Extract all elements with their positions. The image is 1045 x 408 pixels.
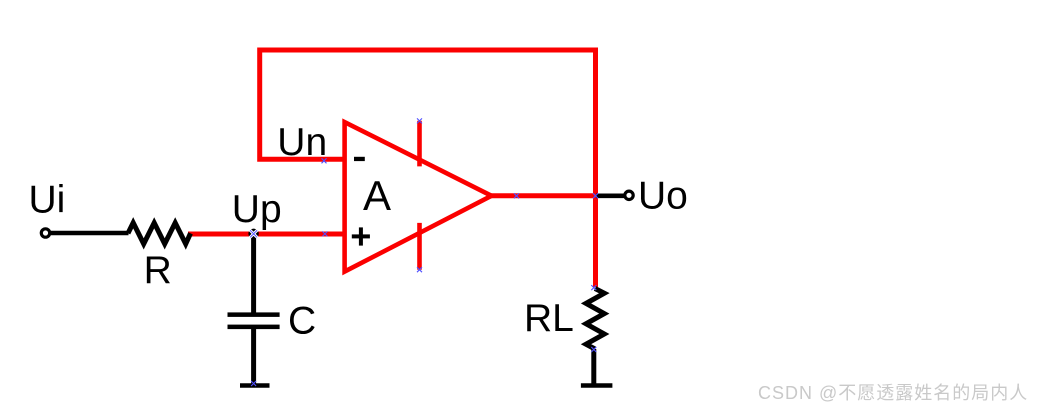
node Up junction dot (248, 229, 258, 239)
ground bar below RL (581, 383, 613, 388)
selection handle marker RL top (591, 285, 596, 290)
op-amp positive supply stub (417, 121, 422, 167)
svg-text:C: C (288, 299, 316, 342)
selection handle marker top supply stub (417, 118, 422, 123)
selection handle marker capacitor ground (251, 381, 256, 386)
resistor RL zigzag (586, 289, 604, 350)
svg-text:R: R (144, 249, 172, 292)
ground bar below capacitor (240, 383, 270, 388)
op-amp negative supply stub (417, 223, 422, 270)
op-amp inverting input minus sign (354, 157, 365, 161)
capacitor C top lead wire (251, 234, 256, 313)
capacitor C bottom lead wire (251, 328, 256, 385)
svg-text:Ui: Ui (29, 179, 66, 222)
wire input terminal to resistor R (51, 231, 129, 236)
svg-text:Un: Un (277, 121, 327, 164)
watermark (758, 379, 1028, 405)
selection handle marker on node Up (250, 231, 256, 237)
svg-text:Uo: Uo (638, 175, 688, 218)
resistor RL bottom lead wire (591, 349, 596, 384)
svg-text:RL: RL (524, 297, 574, 340)
op-amp non-inverting input plus sign (352, 227, 370, 245)
selection handle marker on output wire (514, 193, 519, 198)
input terminal Ui circle (41, 229, 49, 237)
wire from resistor R to non-inverting input (188, 232, 346, 237)
selection handle marker bottom supply stub (417, 267, 422, 272)
wire op-amp output to output node (491, 193, 597, 198)
wire feedback loop from inverting input up and over to output net (260, 50, 596, 287)
selection handle marker on inverting input wire (322, 158, 327, 163)
selection handle marker RL bottom (591, 347, 596, 352)
selection handle marker on output node (593, 193, 598, 198)
op-amp U1 triangle body (345, 122, 492, 272)
svg-text:A: A (363, 172, 391, 219)
svg-text:Up: Up (232, 188, 282, 231)
selection handle marker on non-inverting wire (322, 231, 327, 236)
resistor R zigzag (128, 223, 191, 244)
capacitor C plates (228, 312, 280, 329)
wire output node to output terminal (596, 194, 624, 199)
output terminal Uo circle (625, 191, 633, 199)
